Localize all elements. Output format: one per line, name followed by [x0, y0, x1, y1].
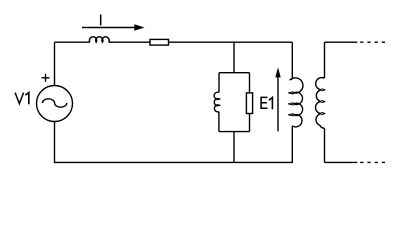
current arrow I line — [82, 27, 136, 29]
resistor R2 (shunt branch) — [246, 93, 252, 114]
inductor L2 loop tails — [217, 98, 221, 106]
wire secondary top dashed continuation — [360, 41, 385, 43]
wire top rail left segment — [55, 41, 90, 43]
arrow E1 head — [275, 67, 280, 77]
transformer primary loop tails — [288, 92, 293, 116]
source V1 sine wave — [42, 99, 66, 107]
plus sign polarity — [42, 74, 50, 82]
current arrow I head — [134, 24, 144, 31]
resistor R1 (series, top) — [150, 39, 169, 45]
wire source bottom lead — [54, 122, 56, 163]
inductor L2 (shunt branch) — [214, 92, 219, 112]
wire box left edge upper — [218, 73, 220, 93]
wire box right edge upper — [249, 73, 251, 93]
label E1 glyph E — [260, 97, 267, 108]
transformer secondary wire bottom — [324, 128, 326, 162]
wire secondary bottom dashed continuation — [360, 161, 385, 163]
wire source top lead — [54, 42, 56, 85]
wire parallel box top edge — [219, 72, 250, 74]
label E1 glyph 1 — [269, 98, 272, 110]
wire box right edge lower — [249, 114, 251, 132]
wire secondary bottom lead — [325, 161, 358, 163]
arrow E1 line — [277, 76, 279, 131]
label I tick — [100, 15, 102, 26]
wire center stub top — [233, 42, 235, 72]
wire top rail right segment — [169, 41, 293, 43]
transformer primary wire bottom — [291, 126, 293, 163]
inductor L1 (series, top) — [89, 37, 109, 42]
wire center stub bottom — [233, 132, 235, 163]
transformer primary winding — [291, 78, 303, 127]
transformer secondary loop tails — [321, 89, 325, 115]
label V1 glyph 1 — [25, 93, 29, 105]
wire secondary top lead — [325, 41, 358, 43]
wire parallel box bottom edge — [219, 131, 250, 133]
transformer secondary wire top — [324, 42, 326, 78]
wire box left edge lower — [218, 112, 220, 132]
source V1 circle — [37, 86, 73, 122]
transformer secondary winding — [315, 78, 324, 129]
wire top rail middle segment — [109, 41, 150, 43]
transformer primary wire top — [291, 42, 293, 78]
label V1 glyph V — [15, 93, 24, 104]
wire bottom rail — [54, 161, 293, 163]
